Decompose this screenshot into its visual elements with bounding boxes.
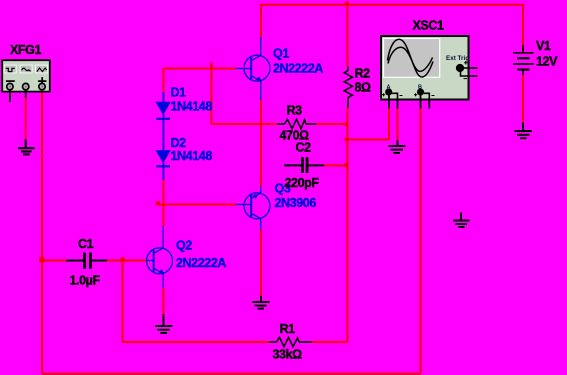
- wire XFG1 common to ground: [25, 90, 27, 98]
- resistor R3: [277, 119, 316, 128]
- transistor Q3: [236, 186, 270, 230]
- function generator XFG1: [2, 60, 50, 91]
- svg-text:R3: R3: [287, 104, 303, 118]
- wire bottom rail right of R1: [312, 341, 348, 343]
- wire C1 left lead: [42, 260, 66, 262]
- wire scope B minus stub: [428, 100, 430, 109]
- wire rail to V1: [522, 5, 524, 51]
- wire scope A pin stub: [388, 95, 390, 108]
- oscilloscope XSC1: [381, 36, 478, 100]
- svg-text:XSC1: XSC1: [413, 19, 445, 33]
- svg-text:R2: R2: [355, 67, 371, 81]
- junction C2 output node: [344, 163, 348, 167]
- wire Q1 emitter down: [260, 100, 262, 124]
- transistor Q1: [236, 37, 270, 100]
- svg-text:220pF: 220pF: [285, 176, 320, 190]
- svg-text:1.0µF: 1.0µF: [70, 274, 101, 288]
- wire bottom rail left: [123, 341, 270, 343]
- wire R3 row horizontal left: [212, 123, 278, 125]
- wire rail to R2 top: [347, 5, 349, 67]
- svg-text:C1: C1: [78, 237, 94, 251]
- wire Q1 base horizontal: [164, 68, 237, 70]
- wire scope ground pin stub: [397, 100, 399, 109]
- junction R3 output: [345, 122, 349, 126]
- capacitor C2: [284, 157, 324, 173]
- svg-text:2N2222A: 2N2222A: [273, 62, 323, 76]
- svg-text:Q1: Q1: [273, 47, 289, 61]
- diode D1: [156, 92, 170, 151]
- wire Q2 emitter to ground: [163, 288, 165, 314]
- svg-text:D2: D2: [171, 136, 187, 150]
- svg-text:1N4148: 1N4148: [171, 149, 213, 163]
- wire C2 right to output node: [324, 165, 346, 167]
- wire Q3 collector to ground: [260, 230, 262, 296]
- svg-text:2N2222A: 2N2222A: [176, 256, 226, 270]
- ground Q3 collector: [252, 296, 270, 309]
- svg-text:C2: C2: [296, 141, 312, 155]
- capacitor C1: [66, 253, 107, 269]
- svg-text:2N3906: 2N3906: [275, 196, 317, 210]
- ground V1: [515, 122, 533, 138]
- wire diode chain bottom: [163, 178, 165, 205]
- battery V1: [513, 45, 534, 75]
- diode D2: [156, 151, 170, 180]
- wire R3 right to output node: [316, 123, 348, 125]
- wire VCC top rail: [261, 4, 523, 6]
- wire Q2 collector up: [163, 205, 165, 227]
- ground XFG1 common: [18, 139, 35, 154]
- wire bottom feedback horizontal: [42, 373, 421, 375]
- wire scope A horizontal to output node: [348, 139, 390, 141]
- wire XFG1 minus stub: [9, 90, 11, 102]
- junction on top rail at R2 branch: [345, 2, 349, 6]
- junction C1 left: [39, 257, 44, 262]
- wire diode node to Q3 base: [156, 204, 236, 206]
- ground Q2 emitter: [155, 314, 173, 333]
- resistor R2: [344, 67, 352, 109]
- resistor R1: [269, 337, 312, 346]
- ground scope: [389, 140, 406, 153]
- wire base junction down to R3 row: [211, 69, 213, 125]
- wire scope B pin stub: [420, 95, 422, 108]
- wire output node vertical: [347, 108, 349, 342]
- svg-text:33kΩ: 33kΩ: [273, 348, 303, 362]
- svg-text:Ext Trig: Ext Trig: [446, 55, 469, 62]
- ground floating: [453, 213, 470, 228]
- svg-text:V1: V1: [536, 39, 551, 53]
- wire scope B vertical: [420, 109, 422, 374]
- svg-text:1N4148: 1N4148: [171, 100, 213, 114]
- svg-text:8Ω: 8Ω: [355, 81, 372, 95]
- svg-text:12V: 12V: [536, 55, 558, 69]
- wire V1 to ground: [522, 75, 524, 122]
- wire emitter node down to Q3: [260, 124, 262, 186]
- junction stub on base wire: [210, 63, 213, 69]
- wire scope A vertical: [388, 109, 390, 140]
- transistor Q2: [147, 226, 173, 288]
- wire Q2 base node down to bottom rail: [122, 261, 124, 343]
- junction C1 right node: [120, 257, 124, 261]
- junction scope A node: [345, 138, 349, 142]
- wire XFG1 common red segment: [25, 98, 27, 140]
- wire XFG1 plus output down left side: [41, 92, 43, 374]
- wire diode chain top: [163, 69, 165, 93]
- wire scope ground lead: [397, 109, 399, 141]
- svg-text:XFG1: XFG1: [10, 43, 41, 57]
- junction diode node: [156, 201, 160, 205]
- wire Q1 collector to rail: [260, 5, 262, 37]
- svg-text:Q2: Q2: [176, 239, 192, 253]
- wire C1 right to Q2 base: [107, 260, 148, 262]
- svg-text:D1: D1: [171, 86, 187, 100]
- svg-text:R1: R1: [280, 322, 296, 336]
